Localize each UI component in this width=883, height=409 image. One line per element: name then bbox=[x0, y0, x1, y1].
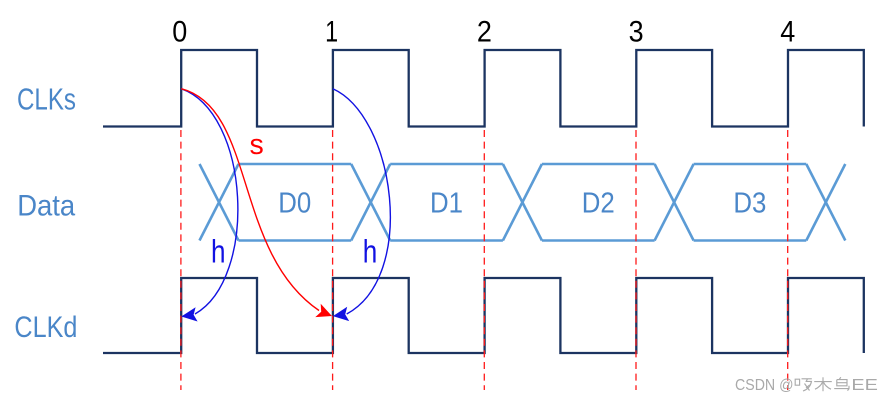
wire CLKs waveform bbox=[103, 50, 864, 127]
watermark hanzi mu bbox=[814, 377, 832, 391]
svg-text:0: 0 bbox=[172, 15, 187, 48]
node t2 dashed marker bbox=[483, 130, 485, 390]
svg-text:h: h bbox=[363, 233, 378, 269]
svg-text:D0: D0 bbox=[278, 188, 311, 220]
svg-text:D2: D2 bbox=[582, 188, 615, 220]
arrowhead blue hold arc 2 bbox=[333, 307, 349, 321]
svg-text:D3: D3 bbox=[733, 188, 766, 220]
svg-text:CSDN @: CSDN @ bbox=[735, 377, 794, 394]
svg-text:h: h bbox=[211, 233, 226, 269]
node t0 dashed marker bbox=[180, 130, 182, 390]
node t4 dashed marker bbox=[787, 130, 789, 390]
wire Data eye waveform bbox=[200, 164, 846, 241]
arrowhead blue hold arc 1 bbox=[181, 307, 197, 321]
wire blue hold arc 1 bbox=[181, 89, 238, 314]
svg-text:1: 1 bbox=[325, 15, 338, 48]
node t3 dashed marker bbox=[635, 130, 637, 390]
watermark CSDN bbox=[735, 377, 878, 394]
wire CLKd waveform bbox=[103, 278, 864, 353]
watermark hanzi niao bbox=[834, 377, 849, 390]
svg-text:4: 4 bbox=[780, 15, 795, 48]
svg-text:CLKs: CLKs bbox=[17, 82, 76, 116]
node t1 dashed marker bbox=[332, 130, 334, 390]
wire red setup curve bbox=[181, 89, 319, 311]
svg-text:D1: D1 bbox=[430, 188, 463, 220]
svg-text:s: s bbox=[250, 129, 264, 161]
svg-text:Data: Data bbox=[17, 190, 75, 223]
svg-text:CLKd: CLKd bbox=[14, 311, 77, 344]
svg-text:2: 2 bbox=[477, 15, 492, 48]
arrowhead red setup curve bbox=[315, 304, 332, 317]
watermark hanzi zhuo bbox=[795, 379, 812, 391]
svg-text:EE: EE bbox=[851, 377, 878, 394]
svg-text:3: 3 bbox=[629, 15, 644, 48]
wire blue hold arc 2 bbox=[333, 89, 390, 314]
